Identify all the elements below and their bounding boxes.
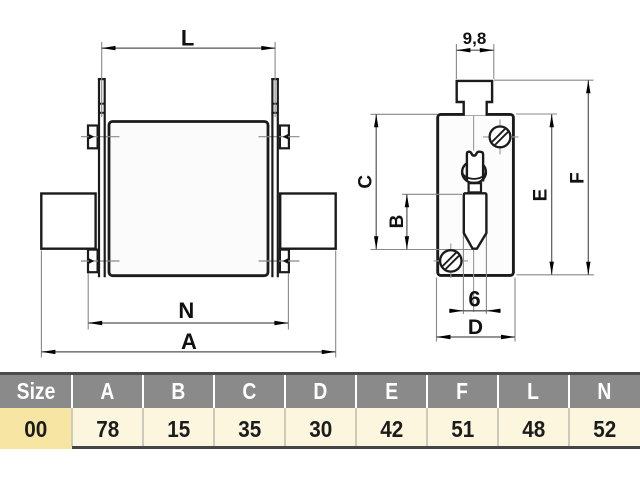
striker centerline: [473, 116, 475, 312]
extension line E/F bottom: [517, 274, 595, 276]
svg-text:9,8: 9,8: [463, 29, 487, 48]
dimension N: [88, 274, 288, 330]
svg-text:C: C: [355, 175, 376, 189]
svg-text:F: F: [568, 172, 589, 184]
dimension C: [355, 114, 378, 249]
dimension 9,8: [456, 29, 493, 79]
striker indicator: [462, 152, 486, 249]
screw bottom: [434, 244, 469, 279]
extension line B top: [402, 193, 462, 195]
dimension 6: [449, 287, 501, 314]
screw top: [483, 120, 519, 155]
dimension F: [568, 80, 591, 275]
svg-text:A: A: [181, 329, 197, 354]
dimension table: [0, 372, 640, 449]
top blade tab side view: [457, 81, 492, 116]
extension lines dimension 6: [463, 234, 486, 314]
centerline upper-left with arrow: [81, 134, 120, 139]
dimension D: [437, 278, 516, 342]
side lug upper-left: [88, 126, 98, 149]
fuse body front view: [109, 122, 268, 276]
svg-text:D: D: [468, 316, 483, 339]
centerline upper-right with arrow: [259, 134, 300, 139]
dimension E: [531, 114, 554, 274]
blade contact left (front view): [41, 194, 95, 249]
extension line F top: [494, 79, 594, 81]
extension line C top: [371, 113, 438, 115]
grip lug / blade strip right: [271, 78, 279, 277]
side lug lower-left: [88, 250, 98, 273]
grip lug / blade strip left: [98, 78, 106, 277]
side lug lower-right: [280, 250, 289, 273]
extension line E top: [516, 113, 557, 115]
svg-text:E: E: [531, 189, 552, 202]
svg-text:6: 6: [468, 287, 480, 312]
fuse body side view: [438, 114, 514, 275]
svg-text:N: N: [178, 298, 194, 323]
svg-text:L: L: [181, 25, 194, 50]
dimension A: [41, 251, 335, 358]
blade contact right (front view): [280, 194, 336, 249]
extension line C/B bottom to striker tip: [371, 249, 473, 251]
dimension L: [102, 25, 276, 117]
side lug upper-right: [280, 126, 289, 149]
svg-text:B: B: [387, 215, 408, 229]
dimension B: [387, 194, 409, 249]
centerline lower-right with arrow: [259, 258, 300, 263]
centerline lower-left with arrow: [81, 258, 120, 263]
